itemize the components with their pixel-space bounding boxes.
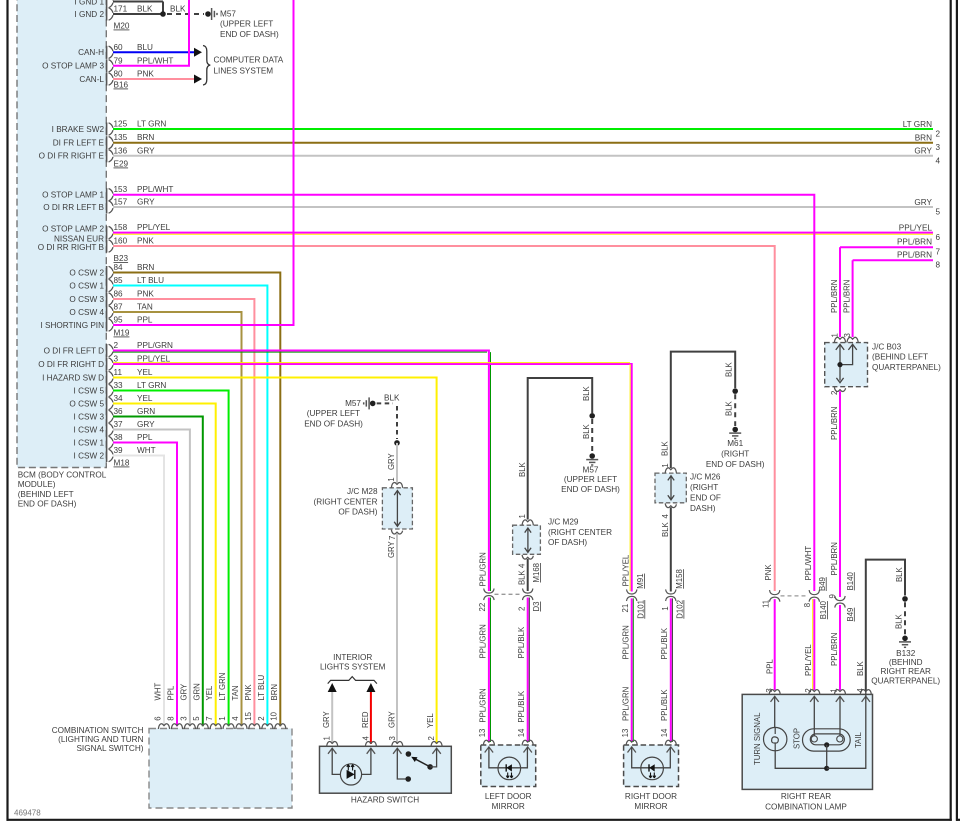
svg-text:B49: B49 xyxy=(818,577,827,591)
svg-text:8: 8 xyxy=(166,716,175,720)
svg-text:(RIGHT CENTER: (RIGHT CENTER xyxy=(548,528,612,537)
svg-text:END OF DASH): END OF DASH) xyxy=(18,500,77,509)
svg-text:2: 2 xyxy=(427,736,436,740)
svg-text:COMBINATION SWITCH: COMBINATION SWITCH xyxy=(52,726,144,735)
svg-text:OF DASH): OF DASH) xyxy=(338,508,377,517)
svg-text:BLU: BLU xyxy=(137,43,153,52)
svg-text:D3: D3 xyxy=(532,602,541,612)
svg-text:INTERIOR: INTERIOR xyxy=(333,653,372,662)
svg-text:13: 13 xyxy=(478,729,487,738)
svg-text:GRY: GRY xyxy=(387,540,396,558)
svg-text:PPL/BLK: PPL/BLK xyxy=(660,689,669,721)
svg-text:TAN: TAN xyxy=(137,303,153,312)
svg-text:80: 80 xyxy=(114,70,124,79)
svg-text:84: 84 xyxy=(114,263,124,272)
svg-text:PNK: PNK xyxy=(137,237,154,246)
svg-text:LT GRN: LT GRN xyxy=(137,120,166,129)
svg-text:1: 1 xyxy=(661,463,670,467)
svg-text:J/C B03: J/C B03 xyxy=(872,343,902,352)
svg-text:PPL/GRN: PPL/GRN xyxy=(479,688,488,722)
svg-text:GRN: GRN xyxy=(137,407,155,416)
svg-text:PPL/BRN: PPL/BRN xyxy=(830,407,839,440)
svg-text:PPL/YEL: PPL/YEL xyxy=(622,554,631,586)
svg-text:(RIGHT: (RIGHT xyxy=(690,483,718,492)
svg-text:PPL/GRN: PPL/GRN xyxy=(137,341,173,350)
svg-text:3: 3 xyxy=(179,716,188,720)
svg-text:PPL/GRN: PPL/GRN xyxy=(479,552,488,586)
svg-text:I SHORTING PIN: I SHORTING PIN xyxy=(40,321,104,330)
svg-text:11: 11 xyxy=(762,600,771,608)
svg-text:13: 13 xyxy=(621,729,630,738)
svg-text:GRY: GRY xyxy=(322,710,331,728)
svg-text:M168: M168 xyxy=(532,563,541,583)
svg-text:I CSW 3: I CSW 3 xyxy=(74,412,105,421)
svg-text:PPL/YEL: PPL/YEL xyxy=(899,223,933,232)
svg-text:PPL/BRN: PPL/BRN xyxy=(897,251,932,260)
svg-text:MODULE): MODULE) xyxy=(18,480,56,489)
svg-text:B49: B49 xyxy=(846,608,855,622)
svg-text:125: 125 xyxy=(114,120,128,129)
svg-text:BLK: BLK xyxy=(170,5,186,14)
svg-text:171: 171 xyxy=(114,5,128,14)
svg-text:O DI FR RIGHT D: O DI FR RIGHT D xyxy=(38,360,104,369)
svg-text:4: 4 xyxy=(361,736,370,741)
svg-text:PPL/YEL: PPL/YEL xyxy=(804,644,813,676)
svg-text:O STOP LAMP 1: O STOP LAMP 1 xyxy=(42,191,104,200)
svg-text:STOP: STOP xyxy=(792,728,801,749)
svg-text:LT GRN: LT GRN xyxy=(137,381,166,390)
svg-text:O DI FR LEFT D: O DI FR LEFT D xyxy=(44,346,104,355)
svg-text:GRY: GRY xyxy=(179,683,188,701)
svg-text:BLK: BLK xyxy=(661,521,670,537)
svg-text:O CSW 4: O CSW 4 xyxy=(69,308,104,317)
svg-text:RIGHT REAR: RIGHT REAR xyxy=(881,667,931,676)
svg-text:7: 7 xyxy=(388,536,397,540)
svg-text:8: 8 xyxy=(803,603,812,607)
svg-text:(BEHIND LEFT: (BEHIND LEFT xyxy=(18,490,74,499)
svg-text:1: 1 xyxy=(830,688,839,692)
svg-text:QUARTERPANEL): QUARTERPANEL) xyxy=(872,363,941,372)
svg-text:11: 11 xyxy=(114,368,123,377)
svg-text:B140: B140 xyxy=(846,572,855,591)
svg-text:6: 6 xyxy=(936,233,941,242)
svg-text:BLK: BLK xyxy=(384,394,400,403)
svg-text:135: 135 xyxy=(114,133,128,142)
svg-text:PPL/WHT: PPL/WHT xyxy=(804,546,813,581)
svg-text:1: 1 xyxy=(323,736,332,740)
svg-text:END OF DASH): END OF DASH) xyxy=(220,30,279,39)
svg-text:95: 95 xyxy=(114,316,124,325)
svg-text:D102: D102 xyxy=(676,600,685,619)
svg-text:2: 2 xyxy=(830,391,839,395)
svg-text:HAZARD SWITCH: HAZARD SWITCH xyxy=(351,796,419,805)
svg-text:BRN: BRN xyxy=(137,133,154,142)
svg-text:PPL: PPL xyxy=(137,316,153,325)
svg-text:O CSW 5: O CSW 5 xyxy=(69,399,104,408)
svg-text:I CSW 5: I CSW 5 xyxy=(74,386,105,395)
svg-text:3: 3 xyxy=(388,736,397,740)
svg-text:BLK: BLK xyxy=(661,440,670,456)
svg-text:PPL/WHT: PPL/WHT xyxy=(137,56,173,65)
svg-text:3: 3 xyxy=(936,143,941,152)
svg-text:GRY: GRY xyxy=(137,198,155,207)
svg-text:TAN: TAN xyxy=(231,685,240,700)
svg-text:CAN-L: CAN-L xyxy=(79,75,104,84)
svg-text:END OF: END OF xyxy=(690,493,721,502)
svg-text:M19: M19 xyxy=(114,329,130,338)
svg-text:BLK: BLK xyxy=(724,400,733,416)
svg-text:RED: RED xyxy=(361,711,370,728)
svg-text:4: 4 xyxy=(936,156,941,165)
svg-text:MIRROR: MIRROR xyxy=(492,802,525,811)
svg-text:79: 79 xyxy=(114,56,124,65)
svg-text:O STOP LAMP 3: O STOP LAMP 3 xyxy=(42,62,104,71)
svg-text:PPL/BRN: PPL/BRN xyxy=(830,280,839,313)
svg-text:(RIGHT CENTER: (RIGHT CENTER xyxy=(314,497,378,506)
svg-text:PPL/GRN: PPL/GRN xyxy=(622,687,631,721)
svg-text:M61: M61 xyxy=(727,439,743,448)
svg-text:PPL: PPL xyxy=(167,685,176,700)
svg-text:5: 5 xyxy=(936,208,941,217)
svg-text:SIGNAL SWITCH): SIGNAL SWITCH) xyxy=(76,744,143,753)
svg-text:PPL/BRN: PPL/BRN xyxy=(830,633,839,666)
svg-text:BLK: BLK xyxy=(518,569,527,585)
svg-text:DI FR LEFT E: DI FR LEFT E xyxy=(53,139,105,148)
svg-text:I CSW 2: I CSW 2 xyxy=(74,451,105,460)
svg-text:PPL/YEL: PPL/YEL xyxy=(137,223,171,232)
svg-text:(BEHIND LEFT: (BEHIND LEFT xyxy=(872,352,928,361)
svg-text:2: 2 xyxy=(517,607,526,611)
svg-text:TURN SIGNAL: TURN SIGNAL xyxy=(753,712,762,765)
svg-text:LT GRN: LT GRN xyxy=(903,120,932,129)
svg-text:B132: B132 xyxy=(896,649,916,658)
svg-text:PPL: PPL xyxy=(765,659,774,674)
svg-text:(LIGHTING AND TURN: (LIGHTING AND TURN xyxy=(58,735,143,744)
svg-text:I BRAKE SW2: I BRAKE SW2 xyxy=(52,125,105,134)
svg-text:M18: M18 xyxy=(114,459,130,468)
svg-text:BLK: BLK xyxy=(518,461,527,477)
svg-text:M57: M57 xyxy=(583,466,599,475)
svg-text:CAN-H: CAN-H xyxy=(78,48,104,57)
svg-text:10: 10 xyxy=(270,711,279,720)
svg-text:14: 14 xyxy=(660,728,669,737)
svg-text:RIGHT DOOR: RIGHT DOOR xyxy=(625,792,677,801)
svg-text:60: 60 xyxy=(114,43,124,52)
svg-text:END OF DASH): END OF DASH) xyxy=(304,419,363,428)
svg-text:J/C M26: J/C M26 xyxy=(690,473,721,482)
svg-text:(BEHIND: (BEHIND xyxy=(889,658,923,667)
svg-text:I GND 1: I GND 1 xyxy=(74,0,104,6)
svg-text:QUARTERPANEL): QUARTERPANEL) xyxy=(871,676,940,685)
svg-text:PPL/BLK: PPL/BLK xyxy=(517,690,526,722)
svg-text:39: 39 xyxy=(114,446,124,455)
svg-text:YEL: YEL xyxy=(137,394,153,403)
svg-text:7: 7 xyxy=(205,716,214,720)
svg-text:I CSW 4: I CSW 4 xyxy=(74,425,105,434)
svg-text:469478: 469478 xyxy=(14,809,41,818)
svg-text:157: 157 xyxy=(114,198,128,207)
svg-text:36: 36 xyxy=(114,407,124,416)
svg-text:E29: E29 xyxy=(114,160,129,169)
svg-text:LEFT DOOR: LEFT DOOR xyxy=(485,792,532,801)
svg-text:BCM (BODY CONTROL: BCM (BODY CONTROL xyxy=(18,471,107,480)
svg-text:PPL/BRN: PPL/BRN xyxy=(830,542,839,575)
svg-text:(UPPER LEFT: (UPPER LEFT xyxy=(220,20,273,29)
svg-text:O DI RR LEFT B: O DI RR LEFT B xyxy=(43,203,104,212)
svg-text:4: 4 xyxy=(517,563,526,568)
svg-text:I HAZARD SW D: I HAZARD SW D xyxy=(42,373,104,382)
svg-text:BLK: BLK xyxy=(137,5,153,14)
svg-text:O DI RR RIGHT B: O DI RR RIGHT B xyxy=(38,243,105,252)
svg-text:PPL/BLK: PPL/BLK xyxy=(660,627,669,659)
svg-text:5: 5 xyxy=(192,716,201,721)
svg-text:2: 2 xyxy=(114,341,119,350)
svg-text:153: 153 xyxy=(114,185,128,194)
svg-text:RIGHT REAR: RIGHT REAR xyxy=(781,792,831,801)
svg-text:I GND 2: I GND 2 xyxy=(74,10,104,19)
svg-text:B23: B23 xyxy=(114,254,129,263)
svg-text:O CSW 3: O CSW 3 xyxy=(69,295,104,304)
svg-text:YEL: YEL xyxy=(137,368,153,377)
svg-text:M57: M57 xyxy=(220,10,236,19)
svg-text:BRN: BRN xyxy=(270,684,279,700)
svg-text:TAIL: TAIL xyxy=(854,731,863,748)
svg-text:15: 15 xyxy=(244,711,253,720)
svg-text:LT BLU: LT BLU xyxy=(257,674,266,700)
svg-text:PPL/GRN: PPL/GRN xyxy=(479,624,488,658)
svg-text:J/C M29: J/C M29 xyxy=(548,518,579,527)
svg-text:M20: M20 xyxy=(114,22,130,31)
svg-text:22: 22 xyxy=(478,603,487,612)
svg-text:BLK: BLK xyxy=(724,361,733,377)
svg-text:YEL: YEL xyxy=(426,713,435,728)
svg-text:6: 6 xyxy=(153,716,162,720)
svg-text:(UPPER LEFT: (UPPER LEFT xyxy=(307,409,360,418)
svg-text:COMPUTER DATA: COMPUTER DATA xyxy=(214,56,284,65)
svg-text:PPL/GRN: PPL/GRN xyxy=(622,625,631,659)
svg-text:DASH): DASH) xyxy=(690,504,716,513)
svg-text:COMBINATION LAMP: COMBINATION LAMP xyxy=(765,802,847,811)
svg-text:BRN: BRN xyxy=(137,263,154,272)
svg-text:7: 7 xyxy=(936,248,941,257)
svg-text:LT GRN: LT GRN xyxy=(218,673,227,701)
svg-text:8: 8 xyxy=(936,261,941,270)
svg-text:PNK: PNK xyxy=(244,684,253,701)
svg-text:21: 21 xyxy=(621,604,630,613)
svg-text:160: 160 xyxy=(114,237,128,246)
svg-text:GRY: GRY xyxy=(914,147,932,156)
svg-text:BLK: BLK xyxy=(856,660,865,676)
svg-text:BLK: BLK xyxy=(895,613,904,629)
svg-text:4: 4 xyxy=(231,716,240,721)
svg-text:BLK: BLK xyxy=(582,385,591,401)
svg-text:PPL/BLK: PPL/BLK xyxy=(517,626,526,658)
svg-text:1: 1 xyxy=(387,477,396,481)
svg-text:YEL: YEL xyxy=(205,685,214,700)
svg-text:LINES SYSTEM: LINES SYSTEM xyxy=(214,66,274,75)
svg-text:M91: M91 xyxy=(636,574,645,589)
svg-text:34: 34 xyxy=(114,394,124,403)
svg-text:1: 1 xyxy=(518,514,527,518)
svg-text:PNK: PNK xyxy=(764,564,773,581)
svg-text:2: 2 xyxy=(804,688,813,692)
svg-text:M57: M57 xyxy=(345,399,361,408)
svg-text:4: 4 xyxy=(661,514,670,519)
svg-text:MIRROR: MIRROR xyxy=(634,802,667,811)
svg-text:33: 33 xyxy=(114,381,124,390)
svg-text:PPL/BRN: PPL/BRN xyxy=(897,238,932,247)
svg-text:PPL/WHT: PPL/WHT xyxy=(137,185,173,194)
svg-text:PNK: PNK xyxy=(137,70,154,79)
svg-text:O CSW 1: O CSW 1 xyxy=(69,281,104,290)
svg-text:END OF DASH): END OF DASH) xyxy=(706,460,765,469)
svg-text:85: 85 xyxy=(114,276,124,285)
svg-text:O CSW 2: O CSW 2 xyxy=(69,268,104,277)
svg-text:37: 37 xyxy=(114,420,124,429)
svg-text:BLK: BLK xyxy=(895,566,904,582)
svg-text:PPL: PPL xyxy=(137,433,153,442)
svg-text:4: 4 xyxy=(856,688,865,693)
svg-text:WHT: WHT xyxy=(154,683,163,701)
svg-text:2: 2 xyxy=(257,716,266,720)
svg-text:GRY: GRY xyxy=(137,146,155,155)
svg-text:1: 1 xyxy=(661,606,670,610)
svg-text:PPL/BRN: PPL/BRN xyxy=(843,280,852,313)
svg-text:I CSW 1: I CSW 1 xyxy=(74,438,105,447)
svg-text:(RIGHT: (RIGHT xyxy=(721,449,749,458)
svg-text:BRN: BRN xyxy=(915,134,932,143)
svg-text:(UPPER LEFT: (UPPER LEFT xyxy=(564,475,617,484)
svg-text:O DI FR RIGHT E: O DI FR RIGHT E xyxy=(39,152,105,161)
svg-text:B140: B140 xyxy=(819,600,828,619)
svg-text:GRN: GRN xyxy=(192,683,201,700)
svg-text:14: 14 xyxy=(517,728,526,737)
svg-text:BLK: BLK xyxy=(582,423,591,439)
svg-text:LT BLU: LT BLU xyxy=(137,276,164,285)
svg-text:LIGHTS SYSTEM: LIGHTS SYSTEM xyxy=(320,663,386,672)
svg-text:87: 87 xyxy=(114,303,124,312)
svg-text:PNK: PNK xyxy=(137,290,154,299)
svg-text:J/C M28: J/C M28 xyxy=(347,487,378,496)
svg-text:D101: D101 xyxy=(636,600,645,619)
svg-text:158: 158 xyxy=(114,223,128,232)
svg-text:GRY: GRY xyxy=(387,452,396,470)
svg-text:136: 136 xyxy=(114,146,128,155)
svg-text:GRY: GRY xyxy=(137,420,155,429)
svg-text:OF DASH): OF DASH) xyxy=(548,538,587,547)
svg-text:1: 1 xyxy=(218,716,227,720)
svg-text:86: 86 xyxy=(114,290,124,299)
svg-text:38: 38 xyxy=(114,433,124,442)
svg-text:END OF DASH): END OF DASH) xyxy=(561,485,620,494)
svg-text:M158: M158 xyxy=(675,569,684,589)
svg-text:B16: B16 xyxy=(114,81,129,90)
svg-text:2: 2 xyxy=(936,130,941,139)
svg-text:WHT: WHT xyxy=(137,446,156,455)
svg-text:GRY: GRY xyxy=(914,198,932,207)
svg-text:O STOP LAMP 2: O STOP LAMP 2 xyxy=(42,225,104,234)
svg-text:GRY: GRY xyxy=(387,710,396,728)
